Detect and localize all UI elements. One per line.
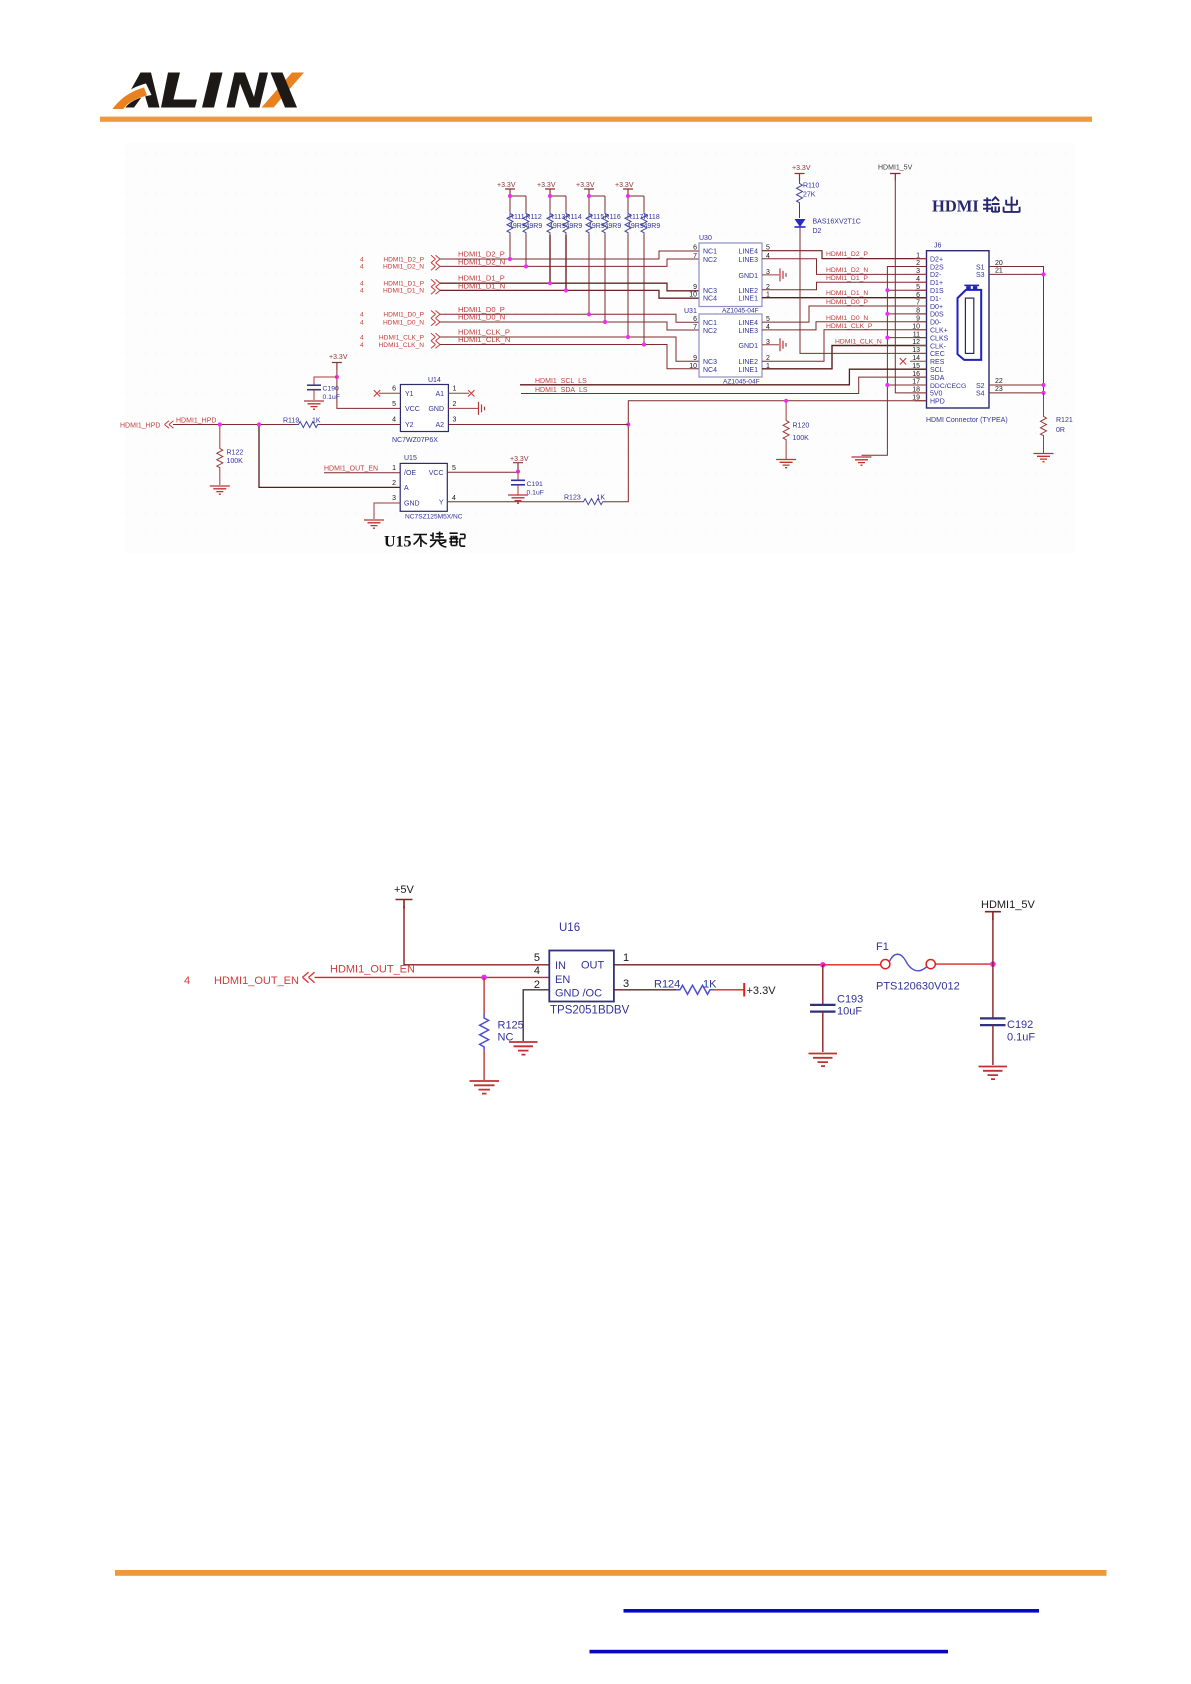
svg-text:0.1uF: 0.1uF: [1007, 1032, 1035, 1044]
junction dot U15 VCC: [516, 469, 520, 473]
svg-text:1: 1: [453, 386, 457, 393]
svg-text:LINE4: LINE4: [739, 320, 759, 327]
svg-text:HDMI1_CLK_N: HDMI1_CLK_N: [379, 342, 425, 349]
svg-text:C191: C191: [527, 481, 543, 488]
svg-text:HDMI1_CLK_P: HDMI1_CLK_P: [826, 323, 873, 330]
wire U30.LINE2 to J6 pin4: [762, 282, 927, 290]
wire HDMI1_SCL_LS: [520, 369, 927, 385]
IC U30 AZ1045-04F: [699, 235, 762, 315]
resistor R113 49R9: [547, 211, 566, 283]
svg-text:D1+: D1+: [930, 280, 943, 287]
svg-text:LINE3: LINE3: [739, 328, 759, 335]
svg-text:HDMI1_CLK_P: HDMI1_CLK_P: [379, 334, 425, 341]
svg-text:VCC: VCC: [405, 406, 420, 413]
svg-text:4: 4: [534, 965, 540, 977]
svg-text:U14: U14: [428, 377, 441, 384]
ALINX logo X orange stroke: [262, 73, 305, 108]
wire HDMI1_D0_N bus: [440, 322, 699, 330]
resistor R120 100K: [783, 401, 809, 459]
svg-text:CLKS: CLKS: [930, 335, 949, 342]
svg-text:+3.3V: +3.3V: [576, 182, 595, 189]
svg-text:BAS16XV2T1C: BAS16XV2T1C: [813, 219, 861, 226]
wire HDMI1_D2_N bus: [440, 259, 699, 266]
svg-text:HDMI1_D1_N: HDMI1_D1_N: [383, 288, 424, 295]
svg-text:HDMI1_SCL_LS: HDMI1_SCL_LS: [535, 378, 587, 385]
svg-text:2: 2: [453, 401, 457, 408]
resistor R121 0R: [1041, 393, 1073, 453]
svg-text:NC3: NC3: [703, 359, 717, 366]
footer link underline 1: [624, 1609, 1040, 1613]
wire J6 S1 S3 to R121: [989, 267, 1044, 393]
port HDMI1_CLK_P: [360, 333, 440, 341]
power rail HDMI1_5V top: [878, 165, 913, 181]
junction dot HPD corner: [626, 422, 630, 426]
power +3.3V for U14: [329, 354, 348, 370]
capacitor C191 0.1uF: [511, 472, 544, 497]
U30 GND1 pin ground: [762, 268, 786, 281]
ALINX logo letter A: [121, 73, 160, 108]
svg-text:GND: GND: [428, 406, 444, 413]
wire pair split rail1: [510, 196, 526, 211]
port HDMI1_D2_P: [360, 255, 440, 263]
capacitor C192 0.1uF: [980, 1018, 1035, 1065]
svg-text:R111: R111: [509, 214, 525, 221]
port HDMI1_D1_N: [360, 287, 440, 295]
svg-text:C190: C190: [323, 386, 339, 393]
svg-text:R115: R115: [588, 214, 604, 221]
bottom orange rule: [115, 1570, 1107, 1576]
svg-text:S1: S1: [976, 264, 985, 271]
ground C191: [508, 495, 528, 503]
svg-text:R125: R125: [498, 1020, 524, 1032]
resistor R119 1K: [283, 418, 400, 428]
U16 pin numbers: [534, 952, 629, 991]
svg-text:Y1: Y1: [405, 391, 414, 398]
wire U15 VCC to +3.3V: [447, 470, 518, 473]
resistor R124 1K: [654, 979, 744, 995]
ground R122: [210, 486, 230, 494]
footer link underline 2: [590, 1650, 949, 1654]
wire HDMI1_OUT_EN to U16 EN: [315, 976, 550, 978]
svg-text:HDMI1_HPD: HDMI1_HPD: [120, 423, 160, 430]
U14 A1 stub with X: [448, 390, 474, 396]
svg-text:IN: IN: [555, 960, 566, 972]
port HDMI1_HPD: [120, 421, 174, 430]
wire U31.LINE3 to J6 pin9: [762, 322, 927, 330]
ALINX logo letter I: [202, 73, 223, 108]
svg-text:1: 1: [392, 465, 396, 472]
svg-text:EN: EN: [555, 974, 570, 986]
svg-text:HDMI1_OUT_EN: HDMI1_OUT_EN: [324, 466, 378, 473]
svg-text:HDMI Connector (TYPEA): HDMI Connector (TYPEA): [926, 417, 1008, 424]
svg-text:HDMI1_D2_N: HDMI1_D2_N: [458, 257, 505, 266]
svg-text:HDMI1_CLK_N: HDMI1_CLK_N: [458, 335, 510, 344]
svg-text:GND /OC: GND /OC: [555, 988, 602, 1000]
svg-text:A2: A2: [435, 422, 444, 429]
wire HDMI1_SDA_LS: [521, 377, 927, 393]
resistor R110 27K: [797, 181, 820, 218]
svg-text:4: 4: [360, 319, 364, 326]
port HDMI1_D0_P: [360, 311, 440, 319]
svg-text:D2S: D2S: [930, 264, 944, 271]
U15 GND pin to ground: [374, 503, 400, 519]
svg-text:9: 9: [693, 284, 697, 291]
ground U15 GND: [364, 520, 384, 528]
svg-text:R123: R123: [564, 495, 581, 502]
svg-text:U15: U15: [384, 534, 412, 551]
IC U31 AZ1045-04F: [684, 308, 762, 386]
svg-text:+3.3V: +3.3V: [329, 354, 348, 361]
svg-text:10: 10: [689, 292, 697, 299]
J6 pin numbers left: [912, 252, 920, 401]
resistor R118 49R9: [641, 211, 660, 345]
svg-text:HDMI1_OUT_EN: HDMI1_OUT_EN: [214, 975, 299, 987]
svg-text:D2: D2: [813, 228, 822, 235]
U15 pin numbers: [392, 465, 456, 502]
svg-text:R113: R113: [549, 214, 565, 221]
svg-text:5V0: 5V0: [930, 391, 943, 398]
ALINX logo orange swoosh: [113, 88, 148, 110]
ground C193: [809, 1054, 838, 1067]
svg-text:27K: 27K: [803, 192, 816, 199]
svg-text:9: 9: [693, 355, 697, 362]
U14 GND pin ground: [448, 402, 484, 415]
wire U30.LINE4 to J6 pin1: [762, 251, 927, 259]
junction dots resistor network: [508, 194, 646, 347]
svg-text:HDMI1_D0_N: HDMI1_D0_N: [383, 319, 424, 326]
port HDMI1_D0_N: [360, 318, 440, 326]
svg-text:20: 20: [995, 260, 1003, 267]
svg-text:HDMI1_D1_P: HDMI1_D1_P: [826, 275, 868, 282]
svg-text:6: 6: [392, 386, 396, 393]
wire HDMI1_5V vertical: [992, 918, 994, 1018]
resistor R111 49R9: [507, 211, 526, 259]
svg-text:U31: U31: [684, 308, 697, 315]
power +3.3V rail 4: [615, 182, 634, 196]
wire pair split rail2: [550, 196, 566, 211]
svg-text:C192: C192: [1007, 1019, 1033, 1031]
svg-text:6: 6: [693, 245, 697, 252]
svg-text:TPS2051BDBV: TPS2051BDBV: [550, 1005, 630, 1017]
junction dot HDMI1_5V: [990, 961, 996, 967]
svg-text:4: 4: [360, 256, 364, 263]
svg-text:CLK+: CLK+: [930, 328, 948, 335]
svg-text:LINE4: LINE4: [739, 249, 759, 256]
IC U15 NC7SZ125M5X: [400, 455, 463, 521]
svg-text:OUT: OUT: [581, 960, 605, 972]
svg-text:R110: R110: [803, 183, 819, 190]
capacitor C193 10uF: [810, 965, 863, 1052]
svg-text:HDMI1_SDA_LS: HDMI1_SDA_LS: [535, 387, 588, 394]
svg-text:LINE3: LINE3: [739, 257, 759, 264]
svg-text:RES: RES: [930, 359, 945, 366]
port 4 HDMI1_OUT_EN: [184, 972, 315, 987]
U31 GND1 pin ground: [762, 338, 786, 351]
resistor R114 49R9: [563, 211, 582, 290]
svg-text:NC3: NC3: [703, 288, 717, 295]
svg-text:S4: S4: [976, 391, 985, 398]
svg-text:R122: R122: [227, 450, 244, 457]
svg-text:LINE1: LINE1: [739, 296, 759, 303]
wire HDMI1_D2_P bus: [440, 251, 699, 259]
svg-text:5: 5: [392, 401, 396, 408]
U30 pin numbers: [689, 245, 770, 299]
svg-text:GND: GND: [404, 501, 420, 508]
connector J6 HDMI (TYPEA) body: [927, 243, 990, 409]
svg-text:HDMI1_5V: HDMI1_5V: [878, 165, 913, 172]
ground C192: [979, 1067, 1008, 1080]
power +5V: [394, 884, 415, 909]
wire U16 /OC to R124: [614, 989, 676, 991]
wire U31.LINE1 to J6 pin12: [762, 346, 927, 369]
svg-text:HDMI: HDMI: [932, 197, 979, 216]
svg-text:4: 4: [360, 342, 364, 349]
svg-text:HDMI1_5V: HDMI1_5V: [981, 899, 1035, 911]
wire U16 GND to ground: [523, 990, 549, 1041]
svg-text:NC4: NC4: [703, 367, 717, 374]
wire J6 shield bus D2S D1S D0S CLKS DDC: [862, 267, 927, 456]
svg-text:U30: U30: [699, 235, 712, 242]
svg-text:NC4: NC4: [703, 296, 717, 303]
svg-text:PTS120630V012: PTS120630V012: [876, 981, 960, 993]
svg-text:+3.3V: +3.3V: [497, 182, 516, 189]
svg-text:HDMI1_OUT_EN: HDMI1_OUT_EN: [330, 964, 415, 976]
resistor R112 49R9: [523, 211, 542, 266]
svg-text:1K: 1K: [703, 979, 717, 991]
svg-text:CLK-: CLK-: [930, 343, 947, 350]
svg-text:S3: S3: [976, 272, 985, 279]
junction dot C190 tap: [335, 375, 339, 379]
svg-text:+3.3V: +3.3V: [792, 165, 811, 172]
svg-text:HPD: HPD: [930, 399, 945, 406]
svg-text:R117: R117: [627, 214, 643, 221]
no-connect X on J6 pin14 RES: [900, 358, 906, 364]
svg-text:D0-: D0-: [930, 320, 942, 327]
svg-text:3: 3: [392, 495, 396, 502]
svg-text:GND1: GND1: [739, 273, 759, 280]
svg-text:NC2: NC2: [703, 328, 717, 335]
capacitor C190 0.1uF: [307, 377, 340, 401]
wire F1 to HDMI1_5V: [935, 963, 993, 965]
svg-text:U15: U15: [404, 455, 417, 462]
svg-text:LINE2: LINE2: [739, 288, 759, 295]
svg-text:4: 4: [360, 312, 364, 319]
wire HPD net J6 pin19: [605, 401, 927, 502]
wire HDMI1_D1_P bus: [440, 283, 699, 291]
svg-text:HDMI1_CLK_N: HDMI1_CLK_N: [835, 338, 882, 345]
ground shield: [852, 457, 872, 465]
svg-text:R120: R120: [793, 423, 810, 430]
wire U30.LINE3 to J6 pin3: [762, 259, 927, 275]
svg-text:NC1: NC1: [703, 249, 717, 256]
svg-text:6: 6: [693, 316, 697, 323]
U14 Y1 stub with X: [374, 390, 401, 396]
svg-text:D0S: D0S: [930, 312, 944, 319]
wire HDMI1_CLK_N bus: [440, 345, 699, 369]
IC U16 TPS2051BDBV: [549, 922, 629, 1017]
diode D2 BAS16XV2T1C: [795, 219, 861, 236]
svg-text:1K: 1K: [312, 418, 321, 425]
svg-text:+5V: +5V: [394, 884, 415, 896]
resistor R116 49R9: [602, 211, 621, 322]
svg-text:HDMI1_D2_N: HDMI1_D2_N: [383, 264, 424, 271]
junction dots shield bus: [885, 288, 889, 387]
wire C193 to F1 left: [823, 964, 881, 966]
svg-text:5: 5: [534, 952, 540, 964]
svg-text:100K: 100K: [793, 435, 810, 442]
ALINX logo X black stroke: [271, 73, 298, 108]
svg-text:HDMI1_D2_N: HDMI1_D2_N: [826, 267, 868, 274]
svg-text:Y: Y: [439, 499, 444, 506]
power +3.3V for U15: [510, 456, 529, 471]
junction dot R122: [218, 422, 222, 426]
schematic sheet background grid: [125, 143, 1075, 553]
svg-text:0.1uF: 0.1uF: [527, 490, 544, 497]
svg-text:4: 4: [360, 334, 364, 341]
svg-text:NC7WZ07P6X: NC7WZ07P6X: [392, 437, 438, 444]
wire HDMI1_D1_N bus: [440, 290, 699, 298]
svg-text:+3.3V: +3.3V: [537, 182, 556, 189]
power +3.3V at R124: [744, 983, 776, 997]
resistor R122 100K: [217, 425, 244, 486]
wire pair split rail4: [628, 196, 644, 211]
svg-text:7: 7: [693, 324, 697, 331]
ground U16 GND: [509, 1042, 538, 1055]
svg-text:D1-: D1-: [930, 296, 942, 303]
svg-text:J6: J6: [934, 243, 942, 250]
svg-text:3: 3: [453, 417, 457, 424]
svg-text:NC2: NC2: [703, 257, 717, 264]
svg-text:HDMI1_D0_N: HDMI1_D0_N: [458, 313, 505, 322]
svg-text:VCC: VCC: [429, 470, 444, 477]
ground R121: [1034, 454, 1054, 462]
wire HDMI1_CLK_P bus: [440, 337, 699, 361]
svg-text:NC1: NC1: [703, 320, 717, 327]
HDMI plug icon in J6: [958, 285, 982, 360]
ground R120: [776, 460, 796, 468]
power +3.3V rail 1: [497, 182, 516, 196]
svg-text:C193: C193: [837, 994, 863, 1006]
svg-text:4: 4: [392, 417, 396, 424]
svg-text:23: 23: [995, 386, 1003, 393]
wire U14.A2 to HPD riser: [448, 424, 628, 426]
svg-text:LINE2: LINE2: [739, 359, 759, 366]
resistor R123 1K: [564, 495, 605, 505]
U14 pin numbers: [392, 386, 456, 424]
svg-text:D2-: D2-: [930, 272, 942, 279]
wire U16 OUT to F1: [614, 964, 823, 966]
ground R125: [470, 1081, 500, 1094]
svg-text:HDMI1_HPD: HDMI1_HPD: [176, 418, 216, 425]
fuse F1 PTS120630V012: [876, 941, 960, 993]
svg-text:/OE: /OE: [404, 470, 416, 477]
title HDMI output: [932, 197, 1020, 216]
svg-text:0R: 0R: [1056, 427, 1065, 434]
svg-text:D2+: D2+: [930, 256, 943, 263]
U31 pin numbers: [689, 316, 770, 370]
ALINX logo swoosh white gap: [110, 84, 152, 111]
wire HDMI1_OUT_EN to U15: [324, 472, 400, 474]
svg-text:3: 3: [623, 978, 629, 990]
IC U14 NC7WZ07P6X: [392, 377, 448, 444]
svg-text:21: 21: [995, 268, 1003, 275]
wire D2 to J6 pin13 CEC: [800, 227, 927, 353]
wire U30.LINE1 to J6 pin6: [762, 297, 927, 299]
svg-text:R124: R124: [654, 979, 680, 991]
svg-text:HDMI1_D0_P: HDMI1_D0_P: [826, 299, 868, 306]
svg-text:22: 22: [995, 378, 1003, 385]
svg-text:D0+: D0+: [930, 304, 943, 311]
ALINX logo letter L: [161, 73, 197, 108]
svg-text:HDMI1_D0_N: HDMI1_D0_N: [826, 315, 868, 322]
ALINX logo letter N: [227, 73, 269, 108]
port HDMI1_D2_N: [360, 263, 440, 271]
svg-text:4: 4: [184, 975, 190, 987]
svg-text:HDMI1_D1_N: HDMI1_D1_N: [458, 281, 505, 290]
wire +3.3V to U14 VCC: [337, 370, 401, 409]
svg-text:A1: A1: [435, 391, 444, 398]
svg-text:R121: R121: [1056, 417, 1073, 424]
svg-text:10: 10: [689, 363, 697, 370]
J6 pin names: [930, 256, 985, 405]
svg-text:1K: 1K: [597, 495, 606, 502]
svg-text:HDMI1_D1_P: HDMI1_D1_P: [383, 281, 424, 288]
svg-text:10uF: 10uF: [837, 1006, 862, 1018]
svg-text:100K: 100K: [227, 458, 244, 465]
svg-text:S2: S2: [976, 383, 985, 390]
resistor R125 NC: [480, 977, 524, 1080]
svg-text:F1: F1: [876, 941, 889, 953]
svg-text:A: A: [404, 485, 409, 492]
J6 short pin stubs left: [910, 259, 927, 401]
text U15 not assembled: [384, 532, 465, 551]
svg-text:1: 1: [623, 952, 629, 964]
port HDMI1_D1_P: [360, 279, 440, 287]
svg-text:+3.3V: +3.3V: [615, 182, 634, 189]
J6 pin numbers right: [995, 260, 1003, 393]
wire U31.LINE2 to J6 pin10: [762, 330, 927, 362]
svg-text:+3.3V: +3.3V: [510, 456, 529, 463]
wire HDMI1_HPD to R119: [173, 424, 296, 426]
ground C190: [304, 401, 324, 409]
power +3.3V rail 3: [576, 182, 595, 196]
wire pair split rail3: [589, 196, 605, 211]
wire HDMI1_D0_P bus: [440, 314, 699, 322]
svg-text:0.1uF: 0.1uF: [323, 394, 340, 401]
svg-text:2: 2: [392, 480, 396, 487]
svg-text:LINE1: LINE1: [739, 367, 759, 374]
resistor R115 49R9: [586, 211, 605, 314]
resistor R117 49R9: [625, 211, 644, 337]
power +3.3V for R110: [792, 165, 811, 181]
junction dot C193: [820, 962, 826, 968]
svg-text:SCL: SCL: [930, 367, 944, 374]
svg-text:HDMI1_D2_P: HDMI1_D2_P: [383, 256, 424, 263]
svg-text:R119: R119: [283, 418, 299, 425]
junction dots S pins: [1041, 272, 1045, 395]
svg-text:4: 4: [360, 281, 364, 288]
top orange rule: [100, 117, 1092, 122]
svg-text:4: 4: [360, 288, 364, 295]
svg-text:HDMI1_D1_N: HDMI1_D1_N: [826, 290, 868, 297]
power rail HDMI1_5V: [981, 899, 1035, 920]
svg-text:4: 4: [360, 264, 364, 271]
svg-text:HDMI1_D0_P: HDMI1_D0_P: [383, 312, 424, 319]
svg-text:GND1: GND1: [739, 343, 759, 350]
junction dot R120: [784, 399, 788, 403]
port HDMI1_CLK_N: [360, 341, 440, 349]
svg-text:5: 5: [452, 465, 456, 472]
